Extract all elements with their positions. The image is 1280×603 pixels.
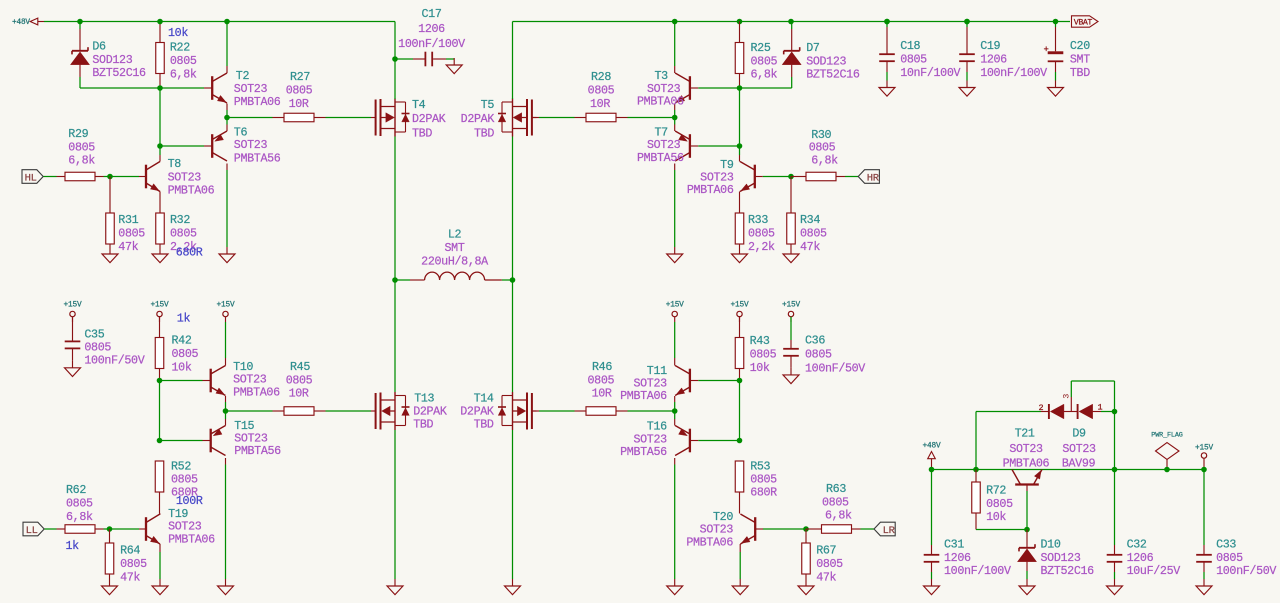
svg-text:PMBTA06: PMBTA06	[687, 183, 734, 197]
svg-text:3: 3	[1062, 394, 1072, 399]
svg-text:R28: R28	[591, 70, 611, 84]
svg-text:0805: 0805	[120, 557, 147, 571]
svg-text:C19: C19	[980, 39, 1000, 53]
svg-text:+15V: +15V	[1195, 445, 1213, 453]
svg-text:10R: 10R	[289, 97, 309, 111]
svg-text:T5: T5	[481, 98, 495, 112]
svg-text:D2PAK: D2PAK	[413, 405, 447, 419]
svg-text:C36: C36	[805, 334, 825, 348]
svg-text:+15V: +15V	[64, 302, 82, 310]
svg-text:6,8k: 6,8k	[66, 510, 93, 524]
svg-text:R27: R27	[290, 70, 310, 84]
svg-text:+15V: +15V	[217, 302, 235, 310]
svg-text:PWR_FLAG: PWR_FLAG	[1151, 431, 1183, 439]
svg-text:0805: 0805	[1216, 551, 1243, 565]
svg-text:PMBTA56: PMBTA56	[234, 444, 281, 458]
svg-text:10k: 10k	[168, 26, 188, 40]
svg-text:10k: 10k	[172, 360, 192, 374]
svg-text:R34: R34	[800, 213, 820, 227]
svg-text:C35: C35	[84, 328, 104, 342]
svg-text:+15V: +15V	[731, 302, 749, 310]
svg-text:6,8k: 6,8k	[825, 509, 852, 523]
svg-text:6,8k: 6,8k	[751, 68, 778, 82]
svg-text:+48V: +48V	[923, 442, 941, 450]
svg-text:R67: R67	[816, 544, 836, 558]
svg-text:PMBTA06: PMBTA06	[620, 389, 667, 403]
svg-text:1: 1	[1098, 403, 1103, 413]
svg-text:10k: 10k	[986, 510, 1006, 524]
svg-text:0805: 0805	[286, 84, 313, 98]
svg-text:TBD: TBD	[1070, 66, 1090, 80]
svg-text:0805: 0805	[751, 54, 778, 68]
svg-text:1k: 1k	[66, 539, 80, 553]
svg-text:D10: D10	[1041, 538, 1061, 552]
svg-text:0805: 0805	[286, 373, 313, 387]
svg-text:100nF/50V: 100nF/50V	[805, 362, 865, 376]
svg-text:220uH/8,8A: 220uH/8,8A	[421, 254, 489, 268]
svg-text:47k: 47k	[120, 570, 140, 584]
svg-text:L2: L2	[448, 228, 462, 242]
svg-text:D9: D9	[1072, 427, 1086, 441]
svg-text:6,8k: 6,8k	[811, 154, 838, 168]
svg-text:680R: 680R	[176, 246, 203, 260]
svg-text:+15V: +15V	[782, 302, 800, 310]
svg-text:BZT52C16: BZT52C16	[92, 66, 146, 80]
svg-text:100nF/50V: 100nF/50V	[84, 354, 144, 368]
svg-text:47k: 47k	[118, 240, 138, 254]
svg-text:10R: 10R	[289, 387, 309, 401]
svg-text:TBD: TBD	[413, 418, 433, 432]
svg-text:R22: R22	[170, 41, 190, 55]
svg-text:SOT23: SOT23	[1009, 442, 1043, 456]
svg-text:680R: 680R	[750, 486, 777, 500]
svg-text:0805: 0805	[588, 84, 615, 98]
svg-text:100nF/100V: 100nF/100V	[944, 564, 1011, 578]
svg-text:+48V: +48V	[12, 19, 30, 27]
svg-text:SOT23: SOT23	[234, 138, 268, 152]
svg-text:47k: 47k	[816, 570, 836, 584]
svg-text:C20: C20	[1070, 39, 1090, 53]
svg-text:0805: 0805	[900, 53, 927, 67]
svg-text:10k: 10k	[750, 361, 770, 375]
svg-text:LL: LL	[26, 525, 38, 537]
svg-text:R46: R46	[592, 360, 612, 374]
svg-text:R45: R45	[290, 360, 310, 374]
svg-text:10uF/25V: 10uF/25V	[1127, 564, 1181, 578]
svg-text:0805: 0805	[986, 497, 1013, 511]
svg-text:C18: C18	[900, 39, 920, 53]
svg-text:C32: C32	[1127, 538, 1147, 552]
svg-text:1206: 1206	[944, 551, 971, 565]
svg-text:PMBTA56: PMBTA56	[234, 152, 281, 166]
svg-text:0805: 0805	[171, 473, 198, 487]
svg-text:SOT23: SOT23	[168, 170, 202, 184]
svg-text:R63: R63	[826, 482, 846, 496]
svg-text:R32: R32	[170, 213, 190, 227]
svg-text:R29: R29	[68, 127, 88, 141]
svg-text:SOD123: SOD123	[1041, 551, 1081, 565]
svg-text:T13: T13	[414, 392, 434, 406]
svg-text:PMBTA06: PMBTA06	[1003, 457, 1050, 471]
svg-text:SOD123: SOD123	[806, 54, 846, 68]
svg-text:47k: 47k	[800, 240, 820, 254]
svg-text:1206: 1206	[980, 53, 1007, 67]
svg-text:PMBTA06: PMBTA06	[233, 385, 280, 399]
svg-text:R62: R62	[66, 483, 86, 497]
svg-text:10nF/100V: 10nF/100V	[900, 66, 960, 80]
svg-text:TBD: TBD	[412, 127, 432, 141]
svg-text:0805: 0805	[66, 497, 93, 511]
svg-text:0805: 0805	[84, 341, 111, 355]
svg-text:R42: R42	[172, 334, 192, 348]
svg-text:0805: 0805	[170, 226, 197, 240]
svg-text:2,2k: 2,2k	[748, 240, 775, 254]
svg-text:C17: C17	[422, 7, 442, 21]
svg-text:R64: R64	[120, 544, 140, 558]
svg-text:D6: D6	[92, 39, 106, 53]
svg-text:HR: HR	[867, 172, 880, 184]
svg-text:VBAT: VBAT	[1074, 19, 1093, 28]
svg-text:SMT: SMT	[445, 241, 465, 255]
svg-text:6,8k: 6,8k	[170, 67, 197, 81]
svg-text:R53: R53	[750, 460, 770, 474]
svg-text:SOT23: SOT23	[1062, 442, 1096, 456]
svg-text:0805: 0805	[750, 473, 777, 487]
svg-text:D2PAK: D2PAK	[460, 405, 494, 419]
svg-text:BZT52C16: BZT52C16	[1041, 564, 1095, 578]
svg-text:R33: R33	[748, 213, 768, 227]
svg-text:C31: C31	[944, 538, 964, 552]
svg-text:R25: R25	[751, 41, 771, 55]
svg-text:1206: 1206	[418, 22, 445, 36]
svg-text:HL: HL	[25, 172, 37, 184]
svg-text:D7: D7	[806, 41, 820, 55]
svg-text:D2PAK: D2PAK	[412, 112, 446, 126]
svg-text:0805: 0805	[816, 557, 843, 571]
svg-text:0805: 0805	[800, 226, 827, 240]
svg-text:1k: 1k	[177, 312, 191, 326]
svg-text:R52: R52	[171, 460, 191, 474]
svg-text:R43: R43	[750, 334, 770, 348]
svg-text:0805: 0805	[170, 54, 197, 68]
svg-text:PMBTA06: PMBTA06	[168, 532, 215, 546]
svg-text:0805: 0805	[588, 373, 615, 387]
svg-text:100nF/100V: 100nF/100V	[398, 37, 465, 51]
svg-text:PMBTA06: PMBTA06	[234, 95, 281, 109]
svg-text:+15V: +15V	[666, 302, 684, 310]
svg-text:0805: 0805	[748, 226, 775, 240]
svg-text:0805: 0805	[172, 347, 199, 361]
svg-text:T4: T4	[412, 98, 426, 112]
svg-text:R31: R31	[118, 213, 138, 227]
svg-text:BAV99: BAV99	[1062, 457, 1096, 471]
svg-text:0805: 0805	[68, 140, 95, 154]
svg-text:SOD123: SOD123	[92, 53, 132, 67]
svg-text:0805: 0805	[822, 495, 849, 509]
svg-text:R72: R72	[986, 484, 1006, 498]
svg-text:LR: LR	[883, 525, 896, 537]
svg-text:100nF/100V: 100nF/100V	[980, 66, 1047, 80]
svg-text:0805: 0805	[750, 348, 777, 362]
svg-text:TBD: TBD	[474, 418, 494, 432]
svg-text:T8: T8	[168, 157, 182, 171]
svg-text:6,8k: 6,8k	[68, 154, 95, 168]
svg-text:T14: T14	[474, 392, 494, 406]
svg-text:0805: 0805	[805, 348, 832, 362]
svg-text:PMBTA06: PMBTA06	[686, 535, 733, 549]
svg-text:PMBTA06: PMBTA06	[168, 184, 215, 198]
svg-text:+15V: +15V	[151, 302, 169, 310]
svg-text:10R: 10R	[590, 97, 610, 111]
svg-text:SOT23: SOT23	[234, 82, 268, 96]
svg-text:0805: 0805	[118, 226, 145, 240]
svg-text:100nF/50V: 100nF/50V	[1216, 564, 1276, 578]
svg-text:PMBTA56: PMBTA56	[620, 445, 667, 459]
svg-text:PMBTA06: PMBTA06	[637, 94, 684, 108]
svg-text:PMBTA56: PMBTA56	[637, 151, 684, 165]
svg-text:D2PAK: D2PAK	[461, 112, 495, 126]
svg-text:C33: C33	[1216, 538, 1236, 552]
svg-text:2: 2	[1039, 403, 1044, 413]
svg-text:TBD: TBD	[474, 127, 494, 141]
svg-text:10R: 10R	[592, 387, 612, 401]
svg-text:SMT: SMT	[1070, 53, 1090, 67]
svg-text:1206: 1206	[1127, 551, 1154, 565]
svg-text:BZT52C16: BZT52C16	[806, 68, 860, 82]
svg-text:T21: T21	[1015, 426, 1035, 440]
